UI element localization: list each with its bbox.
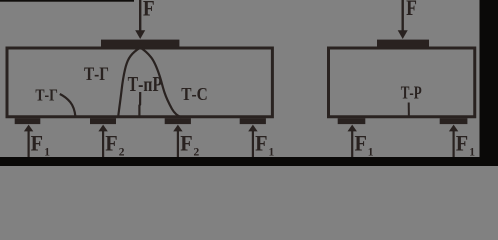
reaction arrow F1 left (beam 1) <box>24 125 33 157</box>
top border strip <box>0 0 134 2</box>
support pad 1 (beam 1) <box>15 118 41 124</box>
beam 1 loading plate <box>101 40 179 48</box>
vertical crack (beam 2) <box>408 103 410 118</box>
svg-text:F: F <box>180 131 192 156</box>
svg-text:F: F <box>255 131 267 156</box>
reaction arrow F2 right (beam 1) <box>173 125 182 157</box>
right border band <box>480 0 498 166</box>
svg-text:F: F <box>406 0 417 20</box>
support pad 5 (beam 2) <box>338 118 366 124</box>
reaction arrow F2 left (beam 1) <box>98 125 107 157</box>
force F arrow (beam 1) <box>135 0 145 39</box>
beam 2 outline <box>329 48 475 117</box>
support pad 6 (beam 2) <box>440 118 468 124</box>
svg-text:2: 2 <box>119 147 125 159</box>
support pad 4 (beam 1) <box>240 118 266 124</box>
svg-text:F: F <box>456 131 468 156</box>
svg-text:F: F <box>355 131 367 156</box>
svg-text:Т-Р: Т-Р <box>401 82 422 102</box>
svg-text:F: F <box>143 0 155 20</box>
svg-text:Т-Г: Т-Г <box>84 65 109 85</box>
bottom border strip <box>0 157 498 166</box>
svg-text:Т-Г: Т-Г <box>35 85 58 104</box>
beam 2 loading plate <box>377 40 429 48</box>
main crack left branch <box>118 48 140 117</box>
svg-text:Т-пР: Т-пР <box>128 72 163 96</box>
svg-text:2: 2 <box>194 147 200 159</box>
reaction arrow F1 right (beam 1) <box>248 125 257 157</box>
svg-text:1: 1 <box>368 147 374 159</box>
beam 1 outline <box>7 48 272 117</box>
svg-text:1: 1 <box>269 147 275 159</box>
main crack right branch <box>140 48 181 118</box>
middle vertical crack <box>138 92 141 117</box>
svg-text:Т-С: Т-С <box>181 84 208 104</box>
small bending crack lower-left <box>60 94 76 117</box>
force F arrow (beam 2) <box>398 0 408 39</box>
support pad 3 (beam 1) <box>165 118 191 124</box>
svg-text:F: F <box>31 131 43 156</box>
reaction arrow F1 (beam 2 left) <box>348 125 357 157</box>
svg-text:1: 1 <box>469 147 475 159</box>
reaction arrow F1 (beam 2 right) <box>449 125 458 157</box>
svg-text:1: 1 <box>44 147 50 159</box>
support pad 2 (beam 1) <box>90 118 116 124</box>
svg-text:F: F <box>105 131 117 156</box>
